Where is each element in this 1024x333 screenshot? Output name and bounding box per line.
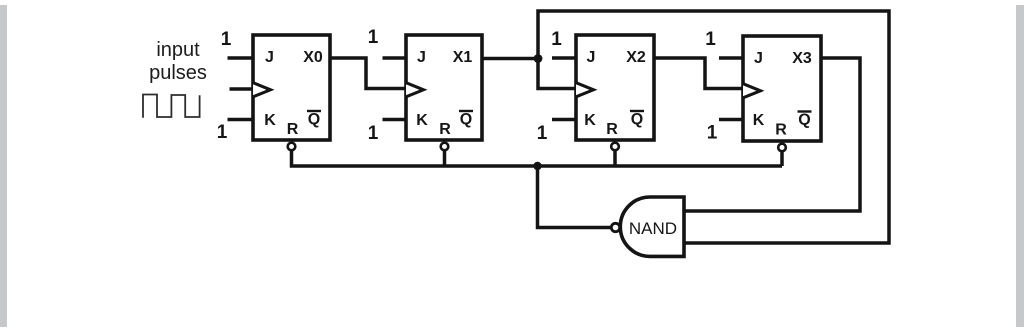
svg-text:1: 1 xyxy=(537,123,548,144)
wire: reset bus connecting R bubbles xyxy=(292,150,783,166)
svg-text:X3: X3 xyxy=(792,50,812,67)
svg-text:1: 1 xyxy=(221,29,232,50)
svg-text:K: K xyxy=(584,112,596,129)
wire: X0 K input stub xyxy=(228,118,254,122)
svg-text:X2: X2 xyxy=(626,49,646,66)
svg-text:Q: Q xyxy=(798,112,810,129)
input pulses label xyxy=(149,39,207,84)
svg-text:R: R xyxy=(606,121,618,138)
svg-text:NAND: NAND xyxy=(629,219,677,238)
svg-text:J: J xyxy=(417,49,426,66)
wire: X0 J input stub xyxy=(228,56,254,60)
flip-flop X3 xyxy=(743,36,821,151)
svg-text:J: J xyxy=(265,49,274,66)
svg-text:J: J xyxy=(754,50,763,67)
flip-flop X0 xyxy=(253,35,330,150)
wire: X1 J input stub xyxy=(383,56,407,60)
svg-text:K: K xyxy=(416,112,428,129)
svg-text:R: R xyxy=(775,122,787,139)
svg-text:Q: Q xyxy=(631,111,643,128)
svg-text:1: 1 xyxy=(368,123,379,144)
svg-text:R: R xyxy=(287,121,299,138)
wire: X2 J input stub xyxy=(552,56,576,60)
svg-text:1: 1 xyxy=(707,123,718,144)
wire: X0 clock input stub xyxy=(230,87,254,91)
svg-text:K: K xyxy=(264,112,276,129)
NAND gate U1 xyxy=(611,197,684,256)
wire: X0 output to X1 clock xyxy=(330,58,406,89)
svg-text:1: 1 xyxy=(368,27,379,48)
svg-text:K: K xyxy=(753,112,765,129)
svg-text:X0: X0 xyxy=(303,49,323,66)
node: reset bus junction xyxy=(533,162,541,170)
wire: X1 output to junction node xyxy=(482,57,538,61)
input pulse waveform xyxy=(143,95,200,118)
svg-text:J: J xyxy=(587,49,596,66)
wire: X3 output to NAND input xyxy=(684,58,860,211)
wire: junction node down to X2 clock xyxy=(538,59,576,89)
page side shadow left xyxy=(0,5,7,327)
svg-text:input: input xyxy=(156,39,200,61)
page side shadow right xyxy=(1016,5,1024,327)
node: X1 output junction xyxy=(534,54,543,63)
wire: X3 J input stub xyxy=(719,56,743,60)
svg-text:R: R xyxy=(439,121,451,138)
svg-text:1: 1 xyxy=(551,29,562,50)
svg-text:1: 1 xyxy=(217,122,228,143)
wire: X2 K input stub xyxy=(552,118,576,122)
wire: X3 K input stub xyxy=(719,118,743,122)
wire: X1 K input stub xyxy=(383,118,407,122)
svg-text:Q: Q xyxy=(308,111,320,128)
flip-flop X2 xyxy=(576,35,654,150)
svg-text:X1: X1 xyxy=(453,49,473,66)
svg-text:pulses: pulses xyxy=(149,62,207,84)
svg-text:1: 1 xyxy=(705,29,716,50)
wire: X2 output to X3 clock xyxy=(654,58,743,89)
wire: NAND output to reset bus xyxy=(538,166,613,228)
wire: feedback from X1 output node over the top to NAND input xyxy=(538,11,889,243)
svg-text:Q: Q xyxy=(460,111,472,128)
flip-flop X1 xyxy=(406,35,482,150)
